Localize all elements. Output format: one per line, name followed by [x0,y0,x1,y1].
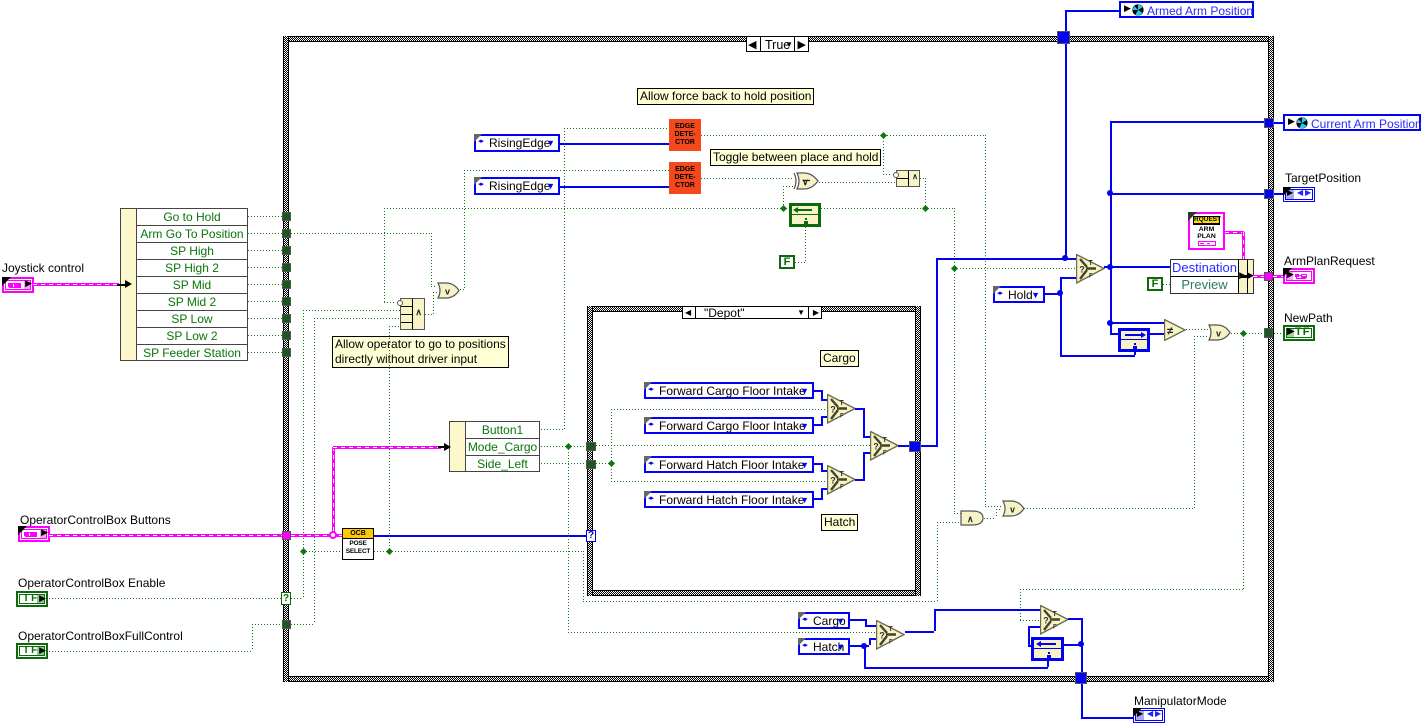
wire Side_Left inside depot [596,463,611,464]
wire FullControl inside case [291,624,314,625]
tunnel Go to Hold [282,212,291,221]
wire SP Mid to tunnel [248,284,283,285]
svg-text:T: T [1053,611,1058,618]
terminal TargetPosition [1283,187,1315,202]
tunnel TargetPosition [1264,189,1274,199]
wire FullControl right [49,651,252,652]
blue junction target [1107,190,1113,196]
select node d (hatch pair) [827,465,856,495]
wire and out to or [984,518,996,519]
wire to Current tunnel [1110,121,1264,123]
terminal OperatorControlBoxFullControl (TF) [16,643,48,659]
wire or3 out to NewPath tunnel [1231,333,1264,334]
wire Target outside [1274,193,1283,195]
or gate V (NewPath) [1208,324,1231,341]
label TargetPosition [1285,171,1361,185]
label ManipulatorMode [1134,694,1227,708]
blue junction hatch [861,643,867,649]
wire Enable up to AND4 [303,310,304,551]
blue junction select-a out [1107,264,1113,270]
terminal OperatorControlBox Enable (TF) [16,591,48,607]
wire Side_Left down to select-d [611,463,612,481]
wire enum3 to select-d [814,463,821,465]
junction NAND out [922,205,929,212]
wire up to Armed tunnel [1065,37,1067,258]
svg-text:F: F [1089,274,1093,280]
compound node AND with inverted input (2-in) [896,170,920,187]
label OperatorControlBox Enable [18,576,165,590]
feedback node 2 (blue, right arrow) [1118,328,1150,352]
wire feedback2 out to neq input2 [1150,333,1164,335]
tunnel SP Mid [282,280,291,289]
tunnel NewPath [1264,328,1273,338]
wire pink OCBButtons inside [291,534,344,537]
label Allow force back to hold position [637,88,814,105]
constant F (false) for Preview [1147,277,1163,291]
tunnel SP Low [282,314,291,323]
wire pink bundle out [1253,275,1264,278]
blue junction neq [1107,320,1113,326]
wire Mode_Cargo output [541,446,586,447]
svg-text:T: T [840,400,845,407]
wire NewPath down long [1243,333,1244,589]
wire Arm Go To Position to OR [431,286,437,287]
wire enum4 to select-d [814,498,821,500]
wire F const to feedback init [795,262,805,263]
terminal NewPath (TF) [1283,325,1315,341]
wire Arm Go To Position to tunnel [248,233,283,234]
wire EdgeDetector2 output to xor [701,178,793,179]
wire F to Preview [1163,284,1171,285]
wire pink OCB Buttons to tunnel [49,534,283,537]
tunnel Current Arm Position [1264,118,1274,128]
wire depot out to select-a [921,445,936,447]
tunnel ArmPlanRequest (magenta) [1264,272,1273,281]
not equal node [1164,319,1186,341]
wire Button1 output [541,429,564,430]
tunnel ManipulatorMode (blue) [1075,672,1087,684]
select node e (depot result) [870,431,899,461]
constant F (false) for feedback init [779,255,795,269]
wire Arm Go To Position into case [291,233,431,234]
wire SP Low to tunnel [248,318,283,319]
wire to TargetPosition tunnel [1110,193,1264,195]
wire SP Feeder Station to tunnel [248,352,283,353]
feedback node 3 (blue, left arrow) [1031,637,1064,661]
compound AND node 4 inputs [400,298,425,330]
wire Button1 up to EdgeDetector1 [541,429,564,430]
junction OCB out [386,548,393,555]
inner case selector label Depot [682,306,822,319]
wire branch down to NAND input [883,135,884,174]
wire Go to Hold to tunnel [248,216,283,217]
svg-text:F: F [883,451,887,457]
svg-text:F: F [840,414,844,420]
xor gate [793,172,819,190]
enum constant Forward Hatch Floor Intake 2 [644,491,814,508]
wire OCB out up to AND4 input4 [389,326,390,551]
tunnel Depot Side_Left [586,460,596,469]
enum constant Forward Cargo Floor Intake 1 [644,382,814,399]
label Cargo (Depot) [820,350,859,367]
junction Mode_Cargo [565,443,572,450]
select node f (manipulator mode) [1040,605,1069,635]
wire down to feedback2 input [1110,323,1112,334]
tunnel FullControl [282,620,291,629]
tunnel Depot output (blue) [909,441,921,452]
inner case structure (Depot case) border [587,306,921,312]
wire select-f out [1068,618,1081,620]
svg-text:T: T [840,471,845,478]
svg-text:v: v [445,287,450,297]
junction select selector branch [951,265,958,272]
tunnel SP High 2 [282,263,291,272]
junction EdgeDetector1 branch [880,132,887,139]
tunnel Armed Arm Position (blue, top border) [1057,31,1070,44]
wire SP High 2 to tunnel [248,267,283,268]
wire EdgeDetector1 to bottom or gate [985,506,1002,507]
terminal ManipulatorMode [1133,708,1165,723]
wire pink ARM PLAN to bundle [1225,231,1244,234]
wire xor output to NAND [819,182,896,183]
wire Arm Go To Position down [431,233,432,286]
wire or2 out right [1024,508,1194,509]
wire blue RisingEdge1 to EdgeDetector1 [560,143,669,145]
svg-text:∨: ∨ [802,177,809,187]
wire NAND out to select line [925,208,954,209]
svg-text:F: F [840,485,844,491]
wire Enable to OCB node [303,551,342,552]
wire OCB out under depot [389,551,583,552]
label ArmPlanRequest [1284,254,1375,268]
wire FullControl to tunnel [252,624,283,625]
wire Current outside [1274,122,1283,124]
tunnel SP High [282,246,291,255]
wire Hatch up to select-g F [864,645,869,647]
wire Hold down to feedback2 init [1060,293,1062,355]
label OperatorControlBox Buttons [20,513,171,527]
arrow into unbundle [117,284,127,286]
wire blue RisingEdge2 to EdgeDetector2 [560,186,669,188]
enum constant RisingEdge 2 [474,177,560,195]
svg-text:≠: ≠ [1167,326,1173,338]
wire Mode_Cargo down to bottom select [568,446,569,632]
wire feedback out down to AND4 [384,208,385,302]
svg-text:F: F [1053,625,1057,631]
wire or3 second input [1194,336,1195,508]
wire EdgeDetector1 output [701,135,985,136]
case selector tunnel ? (Enable) [281,592,291,605]
wire pink up to unbundle2 [332,447,335,533]
terminal Joystick control (cluster) [2,277,34,293]
svg-text:T: T [883,437,888,444]
wire Hold out [1045,293,1060,295]
svg-text:T: T [889,626,894,633]
wire select-a out [1104,266,1171,268]
svg-text:v: v [1010,505,1015,515]
outer case structure (True case) border [283,36,1274,42]
or gate V (top left) [437,282,460,299]
arrow into unbundle2 [438,446,446,448]
wire Mode_Cargo inside depot [596,445,870,446]
wire to feedback3 input [1064,644,1081,646]
subVI RQUEST ARM PLAN [1188,212,1225,250]
label Allow operator to go to positions directly without driver input [332,336,509,368]
wire select-c out to select-e [855,408,863,410]
blue junction feedback3 [1078,641,1084,647]
tunnel SP Mid 2 [282,297,291,306]
tunnel SP Feeder Station [282,348,291,357]
enum constant Hold [993,286,1045,303]
enum constant Cargo [798,612,850,629]
junction Enable branch [300,548,307,555]
wire under depot up to and gate [937,522,938,601]
wire NAND branch down to bottom and gate [954,268,955,513]
junction xor branch [780,205,787,212]
label Joystick control [2,261,84,275]
wire FullControl up [252,624,253,651]
wire SP High to tunnel [248,250,283,251]
terminal ArmPlanRequest (cluster indicator) [1283,268,1315,284]
wire pink outside [1273,275,1283,278]
wire select-g out [905,631,934,633]
wire Cargo to select-g [850,619,865,621]
wire NAND output loop [920,178,925,179]
wire Hatch to select-g [850,645,864,647]
and gate (bottom) [960,510,984,526]
wire select-a out up [1110,121,1112,266]
wire Enable inside case [291,598,303,599]
wire OCB green out [374,551,389,552]
enum constant Hatch [798,638,850,655]
subVI OCB POSE SELECT [342,528,374,560]
wire to Armed global [1065,10,1067,31]
wire enum2 to select-c [814,424,821,426]
feedback node (green, left arrow) [789,203,821,227]
wire select-a down to neq [1110,267,1112,323]
global variable Current Arm Position [1283,114,1421,131]
label NewPath [1284,311,1333,325]
wire EdgeDetector1 long vertical [985,135,986,506]
label Hatch (Depot) [821,514,858,531]
wire Enable to selector tunnel [49,598,281,599]
label OperatorControlBoxFullControl [18,629,183,643]
subVI EDGE DETECTOR 2 [669,162,701,194]
wire neq out to or3 [1186,329,1208,330]
terminal OperatorControlBox Buttons (cluster) [18,526,50,542]
wire feedback3 out to select-f F [1028,626,1030,645]
subVI EDGE DETECTOR 1 [669,119,701,151]
tunnel OCB Buttons (magenta) [282,531,291,540]
junction Side_Left [608,460,615,467]
wire select-d out to select-e [855,479,863,481]
wire Side_Left up to select-c [611,409,612,463]
unbundle by name Button1/Mode_Cargo/Side_Left [449,421,540,472]
wire xor second input [783,186,784,208]
tunnel Depot Mode_Cargo [586,442,596,451]
tunnel Depot selector ? [586,530,596,542]
svg-text:T: T [1089,260,1094,267]
wire to select-a selector input [954,268,1076,269]
wire Hatch down to feedback3 init [864,646,866,667]
wire ManipulatorMode outside [1081,684,1083,717]
wire SP Low 2 to tunnel [248,335,283,336]
pink junction [329,531,337,539]
wire blue OCB to Depot selector [374,535,587,537]
select node g (cargo/hatch) [876,620,905,650]
wire feedback output line [384,208,789,209]
tunnel Arm Go To Position [282,229,291,238]
bundle by name Destination/Preview [1170,259,1254,294]
label Toggle between place and hold [710,149,881,166]
wire Hold up to select-a F [1060,277,1062,293]
svg-text:F: F [889,640,893,646]
unbundle by name node (Joystick cluster) [120,208,248,361]
junction NewPath [1240,330,1247,337]
global variable Armed Arm Position [1119,1,1254,18]
enum constant RisingEdge 1 [474,134,560,152]
wire AND4 output to OR [425,314,433,315]
blue junction hold [1057,290,1063,296]
select node c (cargo pair) [827,394,856,424]
wire pink Joystick to unbundle [33,283,119,286]
blue junction armed [1062,255,1068,261]
svg-text:∧: ∧ [967,514,974,524]
outer case selector label True [746,36,809,52]
wire enum1 to select-c [814,390,821,392]
select node a (hold select) [1076,254,1105,284]
enum constant Forward Cargo Floor Intake 2 [644,417,814,434]
wire to neq input1 [1110,322,1164,324]
wire select-e out to tunnel [898,445,910,447]
wire Side_Left output [541,463,586,464]
wire SP Mid 2 to tunnel [248,301,283,302]
tunnel SP Low 2 [282,331,291,340]
or gate V (bottom) [1002,500,1025,517]
wire NewPath outside [1274,333,1283,334]
enum constant Forward Hatch Floor Intake 1 [644,456,814,473]
wire OR output up to EdgeDetector2 [460,289,464,290]
svg-text:v: v [1216,329,1221,339]
